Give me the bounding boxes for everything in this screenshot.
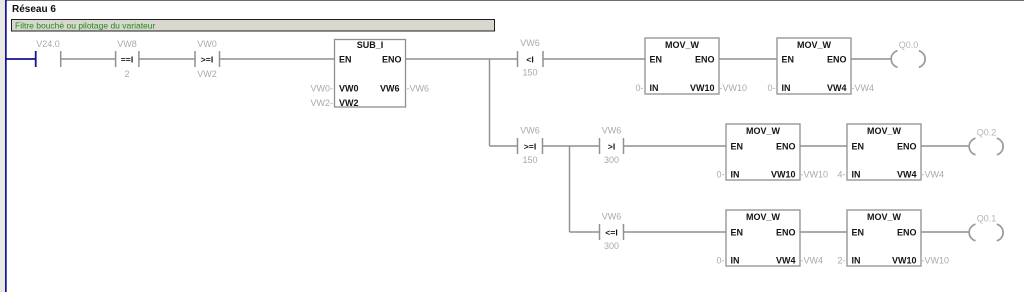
branch junction down to rung 2 — [489, 59, 491, 146]
network separator line — [6, 0, 1024, 2]
svg-text:-VW10: -VW10 — [801, 170, 829, 180]
compare contact VW6 <I 150 — [518, 38, 544, 78]
A2 external operand 0- — [767, 83, 775, 93]
svg-text:0-: 0- — [716, 256, 724, 266]
box MOV_W C1 — [726, 210, 800, 266]
svg-text:MOV_W: MOV_W — [867, 212, 902, 222]
svg-text:Réseau 6: Réseau 6 — [12, 4, 56, 15]
svg-text:IN: IN — [731, 256, 740, 266]
network title Réseau 6 — [12, 4, 56, 15]
box MOV_W A1 — [645, 38, 719, 94]
svg-text:VW4: VW4 — [897, 170, 917, 180]
B1 external operand 0- — [716, 170, 724, 180]
svg-text:150: 150 — [522, 67, 537, 77]
svg-text:VW0-: VW0- — [311, 83, 334, 93]
B1 external operand -VW10 — [801, 170, 829, 180]
svg-text:VW4: VW4 — [776, 256, 796, 266]
box MOV_W B1 — [726, 124, 800, 180]
svg-text:-VW10: -VW10 — [720, 83, 748, 93]
svg-text:-VW4: -VW4 — [801, 256, 824, 266]
box MOV_W A2 — [777, 38, 851, 94]
svg-text:4-: 4- — [837, 170, 845, 180]
svg-text:ENO: ENO — [897, 142, 917, 152]
svg-text:-VW10: -VW10 — [922, 256, 950, 266]
svg-text:VW10: VW10 — [771, 170, 796, 180]
svg-text:ENO: ENO — [695, 55, 715, 65]
svg-text:VW0: VW0 — [197, 39, 217, 49]
svg-text:EN: EN — [731, 228, 744, 238]
box SUB_I U1 — [335, 40, 406, 109]
box MOV_W C2 — [847, 210, 921, 266]
svg-text:MOV_W: MOV_W — [867, 126, 902, 136]
compare contact VW6 <=I 300 — [600, 211, 624, 251]
svg-text:ENO: ENO — [776, 142, 796, 152]
svg-text:VW6: VW6 — [602, 211, 622, 221]
svg-text:V24.0: V24.0 — [36, 39, 60, 49]
svg-text:<I: <I — [526, 54, 533, 64]
svg-text:0-: 0- — [767, 83, 775, 93]
svg-text:VW2: VW2 — [339, 98, 359, 108]
svg-text:ENO: ENO — [827, 55, 847, 65]
svg-text:VW6: VW6 — [520, 38, 540, 48]
svg-text:2: 2 — [124, 69, 129, 79]
svg-text:EN: EN — [782, 55, 795, 65]
svg-text:EN: EN — [852, 228, 865, 238]
svg-text:VW6: VW6 — [380, 83, 400, 93]
contact V24.0 — [36, 39, 61, 67]
network comment box — [12, 20, 495, 32]
svg-text:MOV_W: MOV_W — [665, 40, 700, 50]
svg-text:==I: ==I — [121, 54, 133, 64]
wire C2 to coil — [921, 231, 969, 233]
wire C1 to C2 — [800, 231, 847, 233]
C2 external operand -VW10 — [922, 256, 950, 266]
svg-text:2-: 2- — [837, 256, 845, 266]
svg-text:IN: IN — [852, 256, 861, 266]
SUB_I external operand VW0- — [311, 83, 334, 93]
SUB_I external operand -VW6 — [407, 83, 430, 93]
svg-text:IN: IN — [852, 170, 861, 180]
wire branch to contact VW6 <=I — [570, 231, 600, 233]
svg-text:SUB_I: SUB_I — [357, 40, 384, 50]
svg-text:EN: EN — [339, 55, 352, 65]
svg-text:VW6: VW6 — [520, 125, 540, 135]
svg-text:0-: 0- — [716, 170, 724, 180]
wire — [139, 58, 195, 60]
coil Q0.2 — [969, 127, 1003, 155]
box MOV_W B2 — [847, 124, 921, 180]
svg-text:Q0.0: Q0.0 — [899, 40, 919, 50]
wire to SUB_I — [220, 58, 335, 60]
compare contact VW6 >=I 150 — [518, 125, 543, 165]
coil Q0.1 — [969, 213, 1003, 241]
svg-text:VW6: VW6 — [602, 125, 622, 135]
svg-text:ENO: ENO — [382, 55, 402, 65]
SUB_I external operand VW2- — [311, 98, 334, 108]
network comment text — [15, 21, 156, 31]
svg-text:VW8: VW8 — [117, 39, 137, 49]
wire — [543, 145, 600, 147]
branch junction down to rung 3 — [569, 146, 571, 232]
wire B2 to coil — [921, 145, 969, 147]
wire B1 to B2 — [800, 145, 847, 147]
svg-text:-VW4: -VW4 — [852, 83, 875, 93]
compare contact VW0 >=I VW2 — [195, 39, 220, 79]
wire branch to contact VW6 >=I — [490, 145, 518, 147]
svg-text:<=I: <=I — [605, 227, 617, 237]
B2 external operand -VW4 — [922, 170, 945, 180]
power rail (left bus, blue) — [5, 0, 7, 292]
A2 external operand -VW4 — [852, 83, 875, 93]
svg-text:Q0.2: Q0.2 — [977, 127, 997, 137]
C1 external operand 0- — [716, 256, 724, 266]
svg-text:>=I: >=I — [201, 54, 213, 64]
left margin strip — [0, 0, 4, 292]
svg-text:IN: IN — [731, 170, 740, 180]
svg-text:>=I: >=I — [524, 141, 536, 151]
svg-text:VW10: VW10 — [690, 83, 715, 93]
svg-text:VW2: VW2 — [197, 69, 217, 79]
wire A2 to coil — [851, 58, 891, 60]
A1 external operand -VW10 — [720, 83, 748, 93]
svg-text:ENO: ENO — [776, 228, 796, 238]
wire — [61, 58, 116, 60]
wire A1 to A2 — [719, 58, 777, 60]
C2 external operand 2- — [837, 256, 845, 266]
svg-text:MOV_W: MOV_W — [797, 40, 832, 50]
wire to MOV_W — [543, 58, 645, 60]
wire rail to contact V24.0 (energized blue) — [6, 58, 36, 60]
A1 external operand 0- — [635, 83, 643, 93]
svg-text:IN: IN — [650, 83, 659, 93]
svg-text:VW0: VW0 — [339, 83, 359, 93]
svg-text:VW2-: VW2- — [311, 98, 334, 108]
wire to MOV_W C1 — [624, 231, 726, 233]
svg-text:EN: EN — [731, 142, 744, 152]
svg-text:300: 300 — [604, 155, 619, 165]
svg-text:MOV_W: MOV_W — [746, 212, 781, 222]
svg-text:VW4: VW4 — [827, 83, 847, 93]
svg-text:0-: 0- — [635, 83, 643, 93]
compare contact VW6 >I 300 — [600, 125, 624, 165]
coil Q0.0 — [891, 40, 925, 68]
svg-text:ENO: ENO — [897, 228, 917, 238]
svg-text:Q0.1: Q0.1 — [977, 213, 997, 223]
svg-text:VW10: VW10 — [892, 256, 917, 266]
svg-text:EN: EN — [852, 142, 865, 152]
compare contact VW8 ==I 2 — [116, 39, 139, 79]
svg-text:EN: EN — [650, 55, 663, 65]
wire to MOV_W B1 — [624, 145, 726, 147]
wire ENO to contact VW6 — [406, 58, 518, 60]
C1 external operand -VW4 — [801, 256, 824, 266]
svg-text:IN: IN — [782, 83, 791, 93]
svg-text:Filtre bouché ou pilotage du v: Filtre bouché ou pilotage du variateur — [15, 21, 156, 31]
B2 external operand 4- — [837, 170, 845, 180]
svg-text:MOV_W: MOV_W — [746, 126, 781, 136]
svg-text:300: 300 — [604, 241, 619, 251]
svg-text:-VW6: -VW6 — [407, 83, 430, 93]
svg-text:-VW4: -VW4 — [922, 170, 945, 180]
svg-text:150: 150 — [522, 155, 537, 165]
svg-text:>I: >I — [608, 141, 615, 151]
